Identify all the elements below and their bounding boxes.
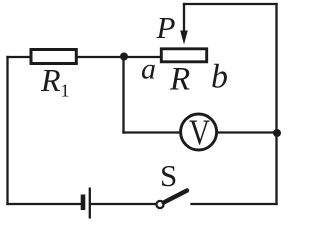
wire switch to bottom-right corner bbox=[192, 203, 277, 205]
wire battery to switch bbox=[91, 203, 156, 205]
wire right wall bbox=[275, 4, 277, 204]
resistor R1 bbox=[31, 50, 76, 64]
potentiometer R body bbox=[161, 49, 206, 62]
switch S lever bbox=[164, 191, 187, 203]
switch S pivot circle bbox=[156, 201, 163, 208]
wire node A down bbox=[122, 57, 124, 133]
voltmeter V bbox=[181, 114, 217, 150]
svg-text:P: P bbox=[156, 10, 176, 45]
node B junction dot bbox=[273, 129, 281, 137]
wire voltmeter to node B bbox=[218, 131, 277, 133]
potentiometer wiper arrowhead P bbox=[180, 31, 188, 45]
svg-text:S: S bbox=[160, 158, 177, 193]
node A junction dot bbox=[120, 53, 128, 61]
battery negative plate (short thick) bbox=[81, 195, 86, 211]
svg-text:R: R bbox=[169, 62, 190, 98]
wire R1 to node A bbox=[77, 56, 124, 58]
wire top (wiper to right wall) bbox=[184, 3, 277, 5]
wire left wall bbox=[6, 57, 8, 204]
wire bottom left to battery bbox=[8, 203, 82, 205]
wire wiper drop bbox=[183, 4, 185, 32]
wire left wall to R1 bbox=[8, 56, 31, 58]
svg-text:V: V bbox=[189, 112, 210, 152]
battery positive plate (long thin) bbox=[89, 188, 91, 219]
svg-text:b: b bbox=[211, 59, 228, 96]
svg-text:R1: R1 bbox=[40, 62, 70, 101]
svg-text:a: a bbox=[141, 53, 156, 86]
wire to voltmeter bbox=[124, 131, 181, 133]
wire node A to pot a-terminal bbox=[124, 56, 160, 58]
